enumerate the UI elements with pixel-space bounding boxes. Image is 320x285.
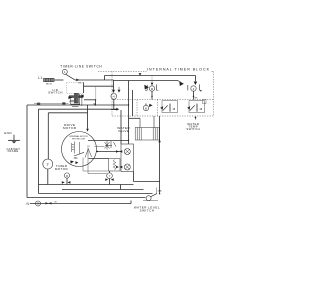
connector hatch on valve feed [105, 141, 117, 150]
connector block right of valve label [135, 128, 159, 141]
small component box [109, 159, 121, 172]
timer contact C6 [187, 106, 190, 109]
connector arrows below valve [105, 178, 108, 181]
wire right vertical to water level switch [159, 116, 161, 194]
svg-text:15A: 15A [73, 157, 78, 160]
wire feed to connector block right [153, 116, 155, 128]
wire L1 to switch [54, 79, 63, 81]
svg-text:INTERNAL TIMER BLOCK: INTERNAL TIMER BLOCK [147, 68, 210, 72]
mid bus [39, 184, 134, 186]
solenoid 1 [124, 149, 130, 155]
lid switch dashed enclosure [67, 82, 84, 93]
connector line with end marks [62, 102, 65, 104]
right vertical x132 [132, 90, 134, 116]
inner box [39, 108, 117, 110]
svg-text:R: R [66, 174, 68, 178]
outer box [27, 104, 129, 106]
junction arrow on top bus [139, 73, 142, 75]
drive motor circle [62, 132, 97, 167]
svg-text:SWITCH: SWITCH [140, 208, 155, 212]
svg-text:SWITCH: SWITCH [48, 91, 63, 95]
top bus wire [105, 75, 196, 77]
connector arrows on bus [62, 181, 65, 184]
timer contact C5 cell [162, 101, 178, 113]
svg-text:PROTECTOR: PROTECTOR [72, 139, 86, 141]
timer motor lower wire [47, 169, 49, 185]
timer motor circle [43, 159, 53, 169]
lid switch mechanism [68, 93, 83, 106]
wire switch output to contact C1 corner [75, 79, 114, 81]
timer contact C4 [143, 105, 148, 110]
water level riser [134, 181, 160, 183]
water valve box [121, 144, 134, 172]
connector arrows into valve [116, 150, 119, 153]
svg-text:18A: 18A [158, 189, 162, 192]
svg-text:Y: Y [109, 174, 111, 178]
terminal on neutral [36, 201, 41, 206]
svg-text:VALVE: VALVE [118, 129, 130, 133]
svg-text:TIMER-LINE SWITCH: TIMER-LINE SWITCH [60, 65, 102, 69]
motor internal marks [70, 142, 91, 165]
svg-text:GND: GND [4, 131, 13, 135]
connector marks on neutral [46, 202, 49, 204]
water valve riser [128, 81, 130, 145]
motor bottom drops [82, 158, 84, 172]
internal timer block dashed border [98, 71, 214, 116]
svg-text:MOTOR: MOTOR [63, 126, 77, 130]
switch blade [66, 74, 75, 80]
svg-text:BK-W: BK-W [46, 83, 53, 85]
svg-text:M: M [151, 87, 153, 91]
svg-text:G: G [37, 202, 39, 206]
riser to top bus [104, 76, 106, 81]
svg-text:FRAME: FRAME [8, 149, 19, 153]
connector at L1 [44, 78, 55, 81]
water level switch [146, 196, 151, 201]
ground symbol [13, 135, 15, 140]
corner drop to contact B [195, 76, 197, 82]
terminal circle timer-line switch [62, 69, 67, 74]
motor feed wire [87, 105, 89, 129]
second bus wire inside block [114, 80, 179, 82]
svg-text:L1: L1 [38, 76, 42, 80]
wire corner at bus [120, 185, 122, 190]
neutral bus [30, 203, 131, 205]
third box [48, 112, 87, 114]
svg-text:MOTOR: MOTOR [55, 167, 69, 171]
wire jog to connector block [129, 117, 141, 119]
connector arrow after switch [76, 79, 79, 82]
terminal R [64, 173, 69, 178]
lid switch wires [83, 82, 85, 93]
lower link wire [62, 189, 144, 191]
timer contact A [151, 76, 153, 86]
wire x121 vertical [120, 110, 122, 144]
svg-text:B: B [145, 106, 147, 110]
motor output wires [88, 140, 129, 142]
solenoid 2 [124, 164, 130, 170]
wire lid switch riser [95, 86, 97, 100]
timer contact C5 [160, 106, 163, 109]
junction dot below block [195, 116, 197, 120]
timer contact C1 [113, 80, 115, 90]
timer contact B [194, 82, 198, 86]
wire below water level switch [143, 200, 158, 202]
terminal below valve [109, 171, 111, 173]
svg-text:SWITCH: SWITCH [186, 127, 200, 131]
